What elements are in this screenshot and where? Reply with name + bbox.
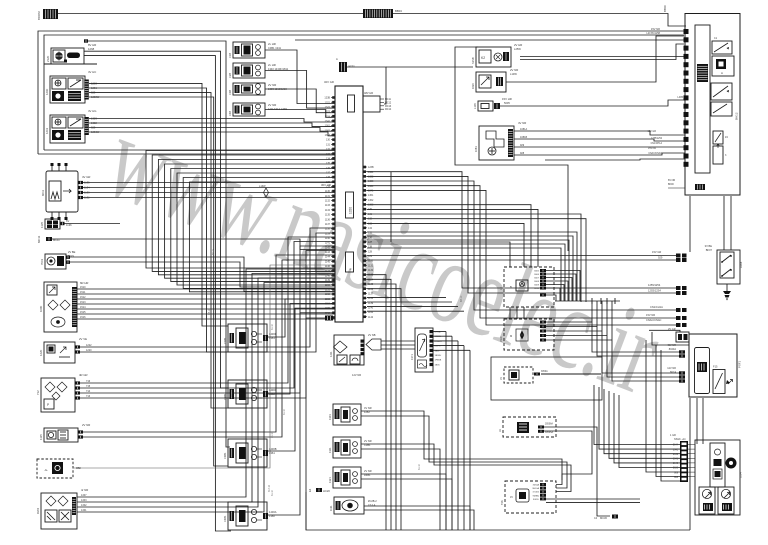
svg-text:15V GR: 15V GR bbox=[652, 250, 661, 254]
svg-text:1510: 1510 bbox=[80, 286, 86, 289]
wire MC11 loop bbox=[347, 67, 386, 104]
wire 1135 right bbox=[60, 223, 120, 225]
svg-text:1133: 1133 bbox=[368, 274, 374, 277]
svg-text:1FB5B: 1FB5B bbox=[435, 360, 442, 362]
wire extra BSI entry bbox=[545, 159, 685, 160]
wires TD8 long right bbox=[546, 498, 640, 500]
svg-text:1311: 1311 bbox=[328, 447, 332, 453]
svg-text:313.1F: 313.1F bbox=[269, 484, 271, 492]
wire MC11 right bbox=[52, 239, 335, 250]
svg-text:1146: 1146 bbox=[325, 265, 331, 268]
svg-text:1150: 1150 bbox=[325, 284, 331, 287]
svg-text:CNAC/CNAC: CNAC/CNAC bbox=[646, 318, 662, 322]
wire TD4 right bbox=[534, 373, 540, 376]
wires 8007 right pins bbox=[540, 269, 546, 272]
component 1261 front lamp cluster 2 bbox=[50, 115, 85, 143]
wire right bottom vertical bbox=[689, 398, 691, 530]
svg-text:3V BE: 3V BE bbox=[705, 244, 713, 248]
wire 2120 feed 1 bbox=[84, 51, 228, 388]
svg-text:134: 134 bbox=[326, 157, 331, 160]
svg-text:1151: 1151 bbox=[325, 288, 331, 291]
svg-text:128: 128 bbox=[368, 250, 373, 253]
splice L13W diamond bbox=[264, 188, 269, 197]
svg-text:80C4: 80C4 bbox=[670, 371, 677, 374]
svg-text:1148: 1148 bbox=[325, 274, 331, 277]
svg-text:1B30U: 1B30U bbox=[435, 355, 442, 357]
wire ignition connector 2 to ECU bbox=[265, 71, 335, 109]
svg-text:1514: 1514 bbox=[80, 306, 86, 309]
component injector 4 bbox=[228, 502, 267, 530]
connector 2V GR top PSF1 bbox=[676, 332, 689, 342]
svg-text:L20 8V/1258: L20 8V/1258 bbox=[646, 32, 660, 35]
wires d1 bottom to d2 top bbox=[509, 307, 511, 319]
svg-text:136: 136 bbox=[326, 167, 331, 170]
component injector 3 bbox=[228, 439, 267, 467]
wires ECU right to bottom bus bbox=[367, 275, 386, 530]
component injector 2 bbox=[228, 380, 267, 408]
component 8204 gauge left bbox=[699, 487, 715, 514]
svg-text:1341: 1341 bbox=[368, 190, 374, 193]
BSI pin strip bbox=[684, 29, 689, 34]
svg-text:4V GR: 4V GR bbox=[82, 175, 90, 179]
svg-text:C3B: C3B bbox=[228, 90, 232, 95]
svg-text:4r NR: 4r NR bbox=[81, 488, 88, 492]
svg-text:1321: 1321 bbox=[325, 101, 331, 104]
verticals sensor trunk bbox=[445, 332, 447, 531]
svg-text:1512: 1512 bbox=[80, 296, 86, 299]
svg-text:3081L: 3081L bbox=[533, 499, 540, 501]
svg-text:BOOM: BOOM bbox=[37, 11, 41, 20]
svg-text:CN1/CH1A: CN1/CH1A bbox=[650, 305, 663, 309]
svg-text:1255/1254: 1255/1254 bbox=[648, 283, 661, 287]
svg-text:1363: 1363 bbox=[325, 134, 331, 137]
BSI relay K2 bbox=[711, 83, 732, 100]
svg-text:L13W: L13W bbox=[259, 185, 266, 188]
svg-text:8630: 8630 bbox=[673, 468, 679, 470]
dashed box TD4 bbox=[504, 367, 533, 383]
BSI fuse 3 bbox=[713, 146, 723, 164]
wires 1081 to BSI bbox=[514, 131, 685, 135]
wire 8007 lower pin bbox=[540, 294, 546, 297]
svg-text:1343: 1343 bbox=[81, 499, 87, 502]
svg-text:BB.1F: BB.1F bbox=[208, 308, 211, 315]
svg-text:2V NR: 2V NR bbox=[268, 83, 276, 87]
wire ignition connector 1 to ECU bbox=[265, 50, 335, 104]
wire border bottom rail outer bbox=[38, 153, 335, 155]
wire 8611 pin 4 bbox=[78, 196, 83, 199]
wires BSI bottom drops bbox=[689, 196, 691, 252]
svg-text:31.1F: 31.1F bbox=[271, 431, 274, 438]
component 1081 module bbox=[479, 126, 514, 160]
svg-text:6R HR: 6R HR bbox=[80, 281, 88, 285]
svg-text:1115: 1115 bbox=[39, 434, 43, 440]
svg-text:3006: 3006 bbox=[534, 274, 540, 276]
connector arrow 1211 bbox=[366, 339, 381, 350]
wires 1510 right pins bbox=[540, 321, 546, 324]
svg-text:1134: 1134 bbox=[325, 209, 331, 212]
svg-text:1 GR: 1 GR bbox=[670, 434, 676, 437]
wire border bottom rail inner bbox=[44, 149, 335, 151]
wires 1080 straight to ECU pins bbox=[77, 288, 335, 290]
component sensor 3 center bottom bbox=[333, 467, 361, 488]
component sensor 2 center bottom bbox=[333, 437, 361, 458]
svg-text:1323: 1323 bbox=[325, 111, 331, 114]
wire injector 2 stub bbox=[263, 391, 268, 397]
connector strip 8204 bbox=[680, 441, 688, 482]
svg-text:123B: 123B bbox=[324, 97, 330, 100]
dashed box TD8 heater bbox=[505, 481, 556, 513]
svg-text:B: B bbox=[510, 285, 512, 289]
dashed box 1510 fan assembly bbox=[504, 319, 554, 350]
component 1220 coolant sensor bbox=[44, 342, 75, 363]
svg-text:8V NR: 8V NR bbox=[668, 179, 675, 182]
BSI relay K1 bbox=[712, 41, 732, 54]
svg-text:3007: 3007 bbox=[534, 278, 540, 280]
svg-text:4V HG: 4V HG bbox=[88, 109, 96, 113]
svg-text:1347: 1347 bbox=[81, 494, 87, 497]
wires ECU right to d1 sides bbox=[367, 223, 524, 267]
svg-text:9(986): 9(986) bbox=[533, 495, 540, 497]
svg-text:1144: 1144 bbox=[325, 256, 331, 259]
svg-text:3#U05: 3#U05 bbox=[533, 492, 540, 494]
svg-text:C2B: C2B bbox=[228, 73, 232, 78]
component ignition connector 1 bbox=[233, 42, 265, 58]
svg-text:1081B: 1081B bbox=[520, 136, 528, 139]
wire outer border rail bbox=[38, 31, 684, 154]
svg-text:3050SA: 3050SA bbox=[545, 431, 554, 434]
svg-text:12V NR: 12V NR bbox=[352, 373, 361, 377]
BSI relay K3 bbox=[711, 102, 732, 116]
wires 8611 to ECU direct bbox=[83, 182, 335, 184]
svg-text:1155: 1155 bbox=[325, 307, 331, 310]
enclosure box around TD4 bbox=[491, 357, 602, 400]
svg-text:1321: 1321 bbox=[328, 477, 332, 483]
svg-text:1361: 1361 bbox=[325, 125, 331, 128]
component 7001 pump bbox=[45, 254, 66, 269]
svg-text:40V NR: 40V NR bbox=[667, 344, 676, 347]
svg-text:1B35: 1B35 bbox=[435, 364, 441, 366]
svg-text:BF07: BF07 bbox=[706, 248, 713, 252]
svg-text:31.1F: 31.1F bbox=[271, 489, 274, 496]
svg-text:1143: 1143 bbox=[325, 251, 331, 254]
svg-text:1341: 1341 bbox=[325, 120, 331, 123]
connector strip 1261 bbox=[84, 117, 89, 135]
svg-text:4V NR: 4V NR bbox=[364, 406, 372, 410]
svg-text:4R GR: 4R GR bbox=[79, 373, 88, 377]
svg-text:C4B: C4B bbox=[228, 111, 232, 116]
svg-text:4V HC: 4V HC bbox=[88, 70, 96, 74]
svg-text:1137: 1137 bbox=[368, 292, 374, 295]
svg-text:MC30: MC30 bbox=[600, 516, 607, 520]
svg-text:4V NR: 4V NR bbox=[518, 121, 526, 125]
svg-text:BF00: BF00 bbox=[668, 183, 674, 186]
svg-text:2v HR: 2v HR bbox=[268, 42, 276, 46]
svg-text:12V NR: 12V NR bbox=[667, 367, 676, 370]
component 1080 fan unit bbox=[44, 282, 77, 332]
svg-text:8644: 8644 bbox=[673, 445, 679, 447]
svg-text:C1B1: C1B1 bbox=[223, 337, 227, 344]
svg-text:F15: F15 bbox=[713, 365, 718, 369]
svg-text:136: 136 bbox=[368, 236, 373, 239]
svg-text:1211/1212 C4B1: 1211/1212 C4B1 bbox=[268, 107, 288, 111]
svg-text:1222: 1222 bbox=[86, 344, 92, 347]
component 2120 headlamp bbox=[51, 48, 84, 64]
svg-text:129: 129 bbox=[326, 186, 331, 189]
svg-text:1360: 1360 bbox=[269, 514, 275, 518]
wire inner border rail bbox=[44, 35, 684, 150]
svg-text:1133: 1133 bbox=[325, 204, 331, 207]
svg-text:1430A: 1430A bbox=[269, 510, 277, 514]
ECU top-right connector 48V bbox=[363, 96, 380, 112]
svg-text:HC20: HC20 bbox=[323, 489, 330, 493]
wire 1620 to BSI bbox=[506, 36, 684, 82]
svg-text:A: A bbox=[721, 71, 723, 75]
svg-text:1152: 1152 bbox=[325, 293, 331, 296]
svg-text:8040A: 8040A bbox=[669, 348, 677, 351]
svg-text:C2B1: C2B1 bbox=[223, 393, 227, 400]
ECU internal top rect bbox=[348, 95, 355, 112]
svg-text:1142: 1142 bbox=[368, 316, 374, 319]
wire 2120 feed 2 bbox=[84, 56, 231, 531]
svg-text:1261: 1261 bbox=[45, 127, 49, 134]
svg-text:1147: 1147 bbox=[325, 270, 331, 273]
svg-text:8642: 8642 bbox=[673, 454, 679, 456]
svg-text:8B.1F: 8B.1F bbox=[460, 295, 463, 302]
component 1131 oil sensor bbox=[334, 497, 364, 514]
wire injector 4 stub bbox=[263, 513, 268, 519]
wires K2 to BSI bbox=[520, 56, 684, 58]
svg-text:1371: 1371 bbox=[410, 354, 414, 360]
svg-text:E4: E4 bbox=[308, 488, 312, 492]
svg-text:137: 137 bbox=[368, 241, 373, 244]
connector strip 1260 bbox=[84, 80, 89, 100]
svg-text:7001: 7001 bbox=[40, 258, 44, 265]
svg-text:S1SB: S1SB bbox=[471, 57, 475, 64]
ECU internal label 1320 bbox=[346, 192, 354, 218]
wire top bus right bbox=[393, 14, 686, 27]
svg-text:1140: 1140 bbox=[325, 237, 331, 240]
wire ECU bottom left to bus bbox=[325, 316, 333, 321]
svg-text:31.1F: 31.1F bbox=[418, 463, 421, 470]
PSF1 arrow bbox=[728, 380, 733, 385]
svg-text:1342: 1342 bbox=[81, 504, 87, 507]
svg-text:131: 131 bbox=[326, 143, 331, 146]
wire injector 3 stub bbox=[263, 450, 268, 456]
svg-text:C1B: C1B bbox=[228, 53, 232, 58]
wire 8611 pin 1 bbox=[78, 181, 83, 184]
svg-text:#C2B.2: #C2B.2 bbox=[368, 499, 377, 503]
svg-text:1362: 1362 bbox=[368, 199, 374, 202]
component DW2 module bbox=[41, 493, 77, 529]
svg-text:1132: 1132 bbox=[325, 200, 331, 203]
svg-text:31.1F: 31.1F bbox=[271, 323, 274, 330]
svg-text:8611: 8611 bbox=[41, 190, 45, 196]
svg-text:M: M bbox=[510, 334, 512, 338]
PSF1 relay bbox=[695, 348, 710, 394]
PSF1 left pin connectors bbox=[679, 350, 685, 353]
svg-text:132: 132 bbox=[326, 148, 331, 151]
svg-text:15V NR: 15V NR bbox=[648, 148, 656, 150]
connector 15V top bbox=[478, 101, 493, 111]
svg-text:1141: 1141 bbox=[325, 242, 331, 245]
wires ECU right upper staircase to BSI lower bbox=[367, 172, 676, 288]
ECU right pins bbox=[363, 166, 367, 168]
component 1371 box bbox=[415, 328, 433, 372]
wire long vertical to PSF1 top bbox=[649, 330, 680, 332]
svg-text:1131: 1131 bbox=[329, 505, 333, 511]
svg-text:1135: 1135 bbox=[325, 214, 331, 217]
svg-text:1136: 1136 bbox=[368, 288, 374, 291]
component ignition connector 2 bbox=[233, 63, 265, 78]
wires ECU right to d1 top bbox=[367, 205, 531, 267]
svg-text:15V NR: 15V NR bbox=[651, 27, 660, 31]
svg-text:1301: 1301 bbox=[328, 414, 332, 420]
svg-text:928: 928 bbox=[520, 152, 525, 155]
svg-text:714: 714 bbox=[86, 390, 91, 393]
wires 1220 to ECU bbox=[75, 345, 80, 348]
component XM dashed option bbox=[37, 459, 73, 478]
svg-text:L13W: L13W bbox=[510, 72, 517, 76]
component 1211 sensor bbox=[334, 335, 364, 365]
svg-text:1135: 1135 bbox=[40, 222, 44, 228]
svg-text:1255/1254: 1255/1254 bbox=[651, 138, 663, 140]
svg-text:DW2: DW2 bbox=[36, 507, 40, 514]
wires 10040 right bbox=[538, 426, 544, 429]
svg-text:1361: 1361 bbox=[368, 194, 374, 197]
svg-text:NSGK +14: NSGK +14 bbox=[674, 438, 686, 441]
svg-text:138: 138 bbox=[326, 176, 331, 179]
svg-text:1320: 1320 bbox=[349, 207, 353, 214]
svg-text:1211: 1211 bbox=[329, 351, 333, 357]
svg-text:K2: K2 bbox=[481, 56, 485, 60]
wires verticals feeding 8204 strip bbox=[646, 340, 680, 472]
svg-text:BB00: BB00 bbox=[663, 5, 667, 12]
BSI fuse Z4 bbox=[713, 131, 723, 144]
component ignition connector 3 bbox=[233, 83, 265, 95]
svg-text:2v HR: 2v HR bbox=[268, 63, 276, 67]
component 8204 cluster bbox=[695, 440, 740, 515]
BSI bottom connector bbox=[695, 184, 705, 190]
PSF1 relay box bbox=[689, 334, 737, 397]
svg-text:2V NR: 2V NR bbox=[510, 68, 518, 72]
wire bottom bus bbox=[306, 492, 690, 530]
svg-text:CH1A: CH1A bbox=[435, 331, 441, 334]
svg-text:1131: 1131 bbox=[368, 264, 374, 267]
svg-text:CNAC/CNAC: CNAC/CNAC bbox=[648, 152, 662, 155]
component 8611 ignition coil bbox=[46, 171, 78, 212]
svg-text:8641: 8641 bbox=[673, 459, 679, 461]
svg-text:L005: L005 bbox=[677, 96, 683, 99]
svg-text:1361: 1361 bbox=[269, 451, 275, 455]
svg-text:88.1F: 88.1F bbox=[212, 248, 215, 255]
wires ECU right staircase down to tick bus bbox=[367, 232, 577, 301]
svg-text:3008: 3008 bbox=[534, 281, 540, 283]
svg-text:133: 133 bbox=[326, 153, 331, 156]
svg-text:712: 712 bbox=[36, 390, 40, 395]
svg-text:12S5/12S4: 12S5/12S4 bbox=[648, 289, 661, 293]
svg-text:1430D: 1430D bbox=[269, 332, 277, 336]
wire XM to ECU bbox=[73, 265, 335, 468]
svg-text:1138: 1138 bbox=[325, 228, 331, 231]
component 8204 gauge right bbox=[718, 487, 734, 514]
svg-text:929: 929 bbox=[520, 144, 525, 147]
svg-text:2V VE: 2V VE bbox=[79, 337, 87, 341]
connector BB04 bbox=[363, 9, 393, 18]
wires U staircase columns bbox=[146, 151, 335, 269]
wires 712 to ECU bbox=[75, 381, 80, 384]
svg-text:6V: 6V bbox=[66, 219, 69, 223]
svg-text:713: 713 bbox=[86, 395, 91, 398]
ground symbol D008 bbox=[726, 284, 728, 291]
svg-text:1081A: 1081A bbox=[520, 128, 528, 131]
svg-text:31.1F: 31.1F bbox=[283, 408, 286, 415]
component 1135 connector bbox=[45, 219, 60, 229]
svg-text:2V NR: 2V NR bbox=[82, 423, 90, 427]
component 712 module bbox=[41, 378, 75, 412]
wire injector 1 stub bbox=[263, 335, 268, 341]
svg-text:CN1/CH1A: CN1/CH1A bbox=[651, 142, 663, 145]
svg-text:MC14: MC14 bbox=[385, 109, 392, 111]
component 8204 horn circle bbox=[726, 458, 737, 469]
component ignition connector 4 bbox=[233, 103, 265, 116]
svg-text:2V BE: 2V BE bbox=[68, 250, 76, 254]
svg-text:1136: 1136 bbox=[325, 218, 331, 221]
svg-text:D008: D008 bbox=[739, 261, 743, 268]
svg-text:MC13: MC13 bbox=[385, 106, 392, 108]
svg-text:130: 130 bbox=[326, 139, 331, 142]
svg-text:1620: 1620 bbox=[471, 83, 475, 89]
junction tick bus bbox=[555, 300, 620, 302]
svg-text:BH12: BH12 bbox=[735, 112, 739, 120]
svg-text:1513: 1513 bbox=[80, 301, 86, 304]
svg-text:C3B1: C3B1 bbox=[223, 452, 227, 459]
svg-text:1132: 1132 bbox=[368, 269, 374, 272]
svg-text:3009: 3009 bbox=[534, 285, 540, 287]
svg-text:1511: 1511 bbox=[80, 291, 86, 294]
svg-text:2V NR: 2V NR bbox=[364, 469, 372, 473]
wire vertical 455 long run bbox=[455, 47, 568, 251]
wire under 2120 bbox=[44, 63, 97, 65]
svg-text:BB04: BB04 bbox=[395, 9, 402, 13]
svg-text:1510: 1510 bbox=[500, 336, 503, 342]
svg-text:A: A bbox=[349, 268, 353, 270]
component 1510 K2 relay box bbox=[476, 47, 511, 67]
svg-text:-G-: -G- bbox=[44, 468, 48, 472]
svg-text:1363: 1363 bbox=[269, 336, 275, 340]
svg-text:C3B1 1341: C3B1 1341 bbox=[268, 46, 282, 50]
wire vertical 391 bbox=[390, 172, 392, 243]
wire ignition connector 3 to ECU bbox=[265, 89, 335, 113]
component 1620 speed sensor bbox=[476, 72, 506, 92]
svg-text:MC11: MC11 bbox=[37, 235, 41, 243]
svg-text:1362: 1362 bbox=[325, 129, 331, 132]
svg-text:1260: 1260 bbox=[45, 88, 49, 95]
connector BOOM top-left bbox=[43, 9, 58, 19]
wire top bus bbox=[58, 13, 363, 15]
svg-text:2V NB: 2V NB bbox=[368, 333, 376, 337]
svg-text:1322: 1322 bbox=[368, 175, 374, 178]
svg-text:1341: 1341 bbox=[81, 509, 87, 512]
svg-text:1220: 1220 bbox=[86, 349, 92, 352]
ECU left pins bbox=[331, 97, 335, 99]
ECU 1320 main box bbox=[335, 86, 363, 322]
svg-text:C4B1: C4B1 bbox=[223, 515, 227, 522]
wires sensor feeds routing bbox=[361, 411, 562, 485]
wire ignition connector 4 to ECU bbox=[265, 110, 335, 118]
svg-text:3010: 3010 bbox=[534, 288, 540, 290]
svg-text:135: 135 bbox=[326, 162, 331, 165]
PSF1 fuse F15 bbox=[713, 370, 725, 394]
